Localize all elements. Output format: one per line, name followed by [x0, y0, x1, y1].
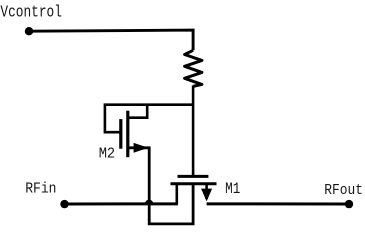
svg-text:M2: M2	[99, 146, 116, 163]
svg-text:Vcontrol: Vcontrol	[0, 4, 62, 23]
svg-text:RFin: RFin	[25, 181, 56, 198]
svg-text:RFout: RFout	[324, 182, 363, 199]
svg-text:M1: M1	[225, 180, 240, 198]
